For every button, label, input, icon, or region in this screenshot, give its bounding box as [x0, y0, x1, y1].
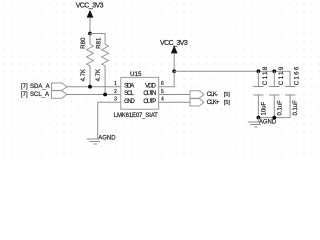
svg-text:0.1uF: 0.1uF	[293, 100, 299, 116]
svg-text:3: 3	[114, 97, 117, 103]
pin 1 SDA	[114, 81, 134, 89]
pin 4 OUTP	[143, 97, 164, 105]
svg-text:[7]: [7]	[21, 84, 28, 90]
svg-text:0.1uF: 0.1uF	[277, 100, 283, 116]
wire pin3 GND to AGND	[98, 102, 121, 139]
resistor R81	[96, 37, 108, 81]
IC U15	[114, 71, 159, 119]
wire pin5 OUTN to CLK-	[159, 94, 190, 96]
svg-text:[5]: [5]	[224, 92, 231, 98]
node bottom rail junction C119	[272, 116, 276, 120]
svg-text:AGND: AGND	[98, 136, 116, 142]
wire pin6 VDD riser	[159, 71, 175, 86]
power symbol VCC_3V3 (right)	[160, 40, 188, 54]
ground AGND (U15)	[87, 136, 116, 144]
wire VCC1 stem	[89, 18, 91, 34]
node VCC2 junction	[172, 69, 176, 73]
node bottom rail junction C118	[257, 116, 261, 120]
pin 2 SCL	[114, 89, 134, 97]
svg-text:OUTP: OUTP	[143, 99, 156, 105]
svg-text:C119: C119	[278, 66, 285, 85]
svg-text:4: 4	[161, 97, 164, 103]
wire SDA net	[67, 86, 121, 88]
wire R81 bottom lead	[104, 66, 106, 95]
svg-text:U15: U15	[130, 71, 142, 78]
port CLK-	[190, 91, 230, 98]
port SCL_A	[21, 91, 67, 98]
svg-text:OUTN: OUTN	[143, 91, 156, 97]
svg-text:LMK61E07_SIAT: LMK61E07_SIAT	[114, 113, 158, 119]
node SDA/R80 junction	[88, 85, 92, 89]
wire caps bottom rail	[258, 117, 290, 119]
svg-text:C166: C166	[294, 66, 301, 85]
svg-text:6: 6	[161, 81, 164, 87]
svg-text:4.7K: 4.7K	[96, 69, 102, 81]
port SDA_A	[21, 83, 67, 90]
svg-text:[7]: [7]	[21, 92, 28, 98]
capacitor C118	[253, 66, 269, 117]
node SCL/R81 junction	[103, 93, 107, 97]
wire junction to R80 top	[89, 34, 91, 45]
wire R80 bottom lead	[89, 66, 91, 87]
svg-text:SCL: SCL	[124, 91, 134, 97]
svg-text:VCC_3V3: VCC_3V3	[76, 2, 104, 9]
svg-text:CLK+: CLK+	[207, 100, 220, 106]
svg-text:1: 1	[114, 81, 117, 87]
svg-text:10uF: 10uF	[261, 101, 267, 115]
wire VCC2 stem	[173, 53, 175, 71]
pin 3 GND	[114, 97, 135, 105]
svg-text:C118: C118	[262, 66, 269, 85]
svg-text:5: 5	[161, 89, 164, 95]
svg-text:2: 2	[114, 89, 117, 95]
capacitor C119	[269, 66, 285, 117]
svg-text:CLK-: CLK-	[207, 92, 218, 98]
wire pin4 OUTP to CLK+	[159, 101, 190, 103]
svg-text:R80: R80	[81, 37, 87, 49]
svg-text:GND: GND	[124, 99, 135, 105]
svg-text:VDD: VDD	[145, 83, 156, 89]
port CLK+	[190, 99, 230, 106]
ground AGND (caps)	[248, 118, 277, 127]
svg-text:R81: R81	[96, 37, 102, 49]
pin 6 VDD	[145, 81, 164, 89]
power symbol VCC_3V3 (left)	[76, 2, 104, 17]
svg-text:VCC_3V3: VCC_3V3	[160, 40, 188, 47]
pin 5 OUTN	[143, 89, 164, 97]
resistor R80	[81, 37, 94, 81]
wire SCL net	[67, 94, 121, 96]
node cap C119 top junction	[272, 69, 276, 73]
capacitor C166	[285, 66, 301, 117]
svg-text:4.7K: 4.7K	[81, 69, 87, 81]
svg-text:AGND: AGND	[259, 119, 277, 125]
svg-text:[5]: [5]	[224, 100, 231, 106]
wire VCC rail to caps	[174, 70, 290, 72]
node cap C118 top junction	[257, 69, 261, 73]
wire junction to R81 top	[90, 34, 105, 45]
svg-text:SCL_A: SCL_A	[30, 92, 49, 98]
svg-text:SDA_A: SDA_A	[30, 84, 50, 90]
svg-text:SDA: SDA	[124, 83, 134, 89]
node junction VCC1/R80/R81	[88, 32, 92, 36]
